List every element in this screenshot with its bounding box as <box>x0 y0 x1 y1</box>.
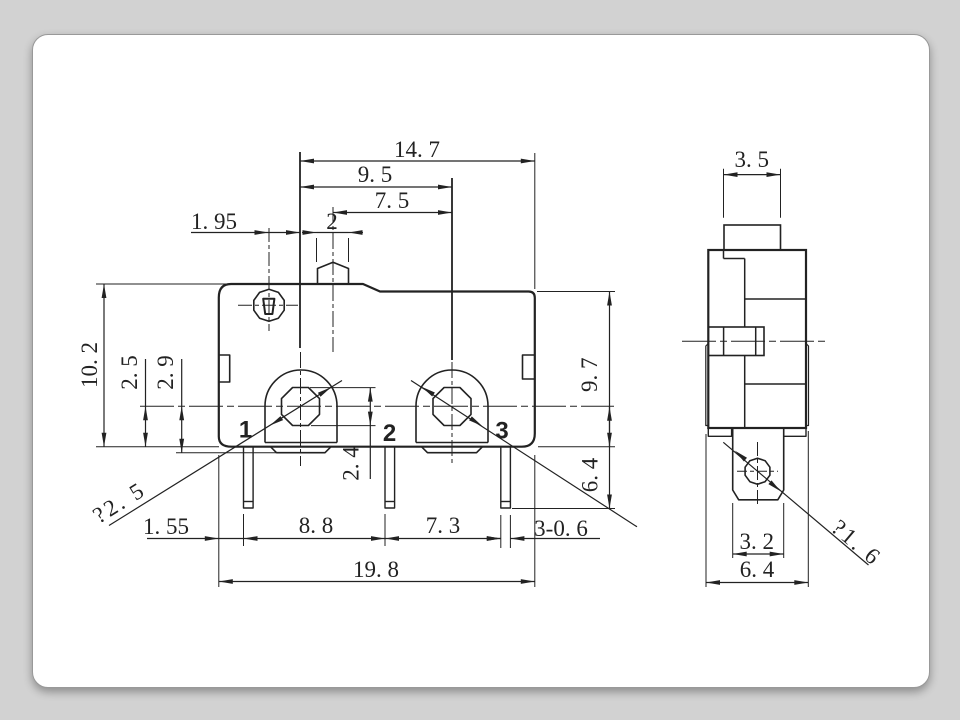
dim 6.4 front <box>609 407 611 509</box>
dim 3.5 <box>724 174 781 176</box>
dim 9.5 extension right (dome2 CL) <box>451 178 453 360</box>
mounting hole crosshair horizontal <box>238 304 298 306</box>
svg-text:6. 4: 6. 4 <box>578 457 603 492</box>
dim 6.4 side ext lines <box>705 434 707 587</box>
dome 2 vertical centerline <box>451 362 453 466</box>
dim 1.55 <box>147 538 219 540</box>
svg-text:3: 3 <box>495 418 508 445</box>
dim 6.4 side <box>706 582 808 584</box>
dim 2.9 <box>181 359 183 453</box>
leader dia 1.6 arrows <box>735 451 747 462</box>
right side notch <box>523 355 535 379</box>
dim 3-0.6 <box>486 538 501 540</box>
dim 3.2 <box>733 553 784 555</box>
dim 2 ext lines <box>316 238 318 262</box>
svg-text:3-0. 6: 3-0. 6 <box>534 516 588 541</box>
plunger button front view <box>318 262 349 284</box>
side view plunger button <box>724 225 781 250</box>
terminal dome 2 hex hole <box>433 388 471 426</box>
side view terminal tab <box>733 428 784 500</box>
dim 19.8 <box>219 581 535 583</box>
svg-text:1. 95: 1. 95 <box>191 209 237 234</box>
side view left foot <box>708 428 731 436</box>
terminal dome 2 arch <box>416 370 488 443</box>
terminal dome 1 seat <box>271 447 332 453</box>
side view horizontal centerline <box>682 340 826 342</box>
side view tab vertical centerline <box>757 442 759 507</box>
svg-text:14. 7: 14. 7 <box>394 137 440 162</box>
side view inner edge a <box>723 250 725 259</box>
side view protrusion block <box>708 327 764 356</box>
svg-text:9. 5: 9. 5 <box>358 162 393 187</box>
leader dia 1.6 line <box>723 442 868 565</box>
mounting hole crosshair vertical <box>268 228 270 331</box>
dim 2.5 <box>145 359 147 447</box>
dim 7.3 ext left <box>384 514 386 546</box>
dim 9.7 <box>609 292 611 447</box>
dim 8.8 ext left <box>243 514 245 546</box>
terminal dome 1 arch <box>265 370 337 443</box>
side view body outline <box>708 250 806 428</box>
dim 7.5 <box>333 212 452 214</box>
svg-text:2. 4: 2. 4 <box>338 446 363 481</box>
side view right cover sliver <box>806 344 809 426</box>
leader dia 2.5 arrows <box>270 416 283 425</box>
dim 3.2 ext lines <box>732 503 734 558</box>
front view switch body outline <box>219 284 535 447</box>
side view terminal hole <box>745 458 770 484</box>
svg-text:3. 5: 3. 5 <box>734 147 769 172</box>
svg-text:2: 2 <box>326 209 338 234</box>
side view tab horizontal centerline <box>737 470 778 472</box>
dim 14.7 <box>300 160 535 162</box>
side view inner edge c <box>744 356 746 429</box>
svg-text:7. 3: 7. 3 <box>426 513 461 538</box>
mounting hole slot <box>263 299 274 314</box>
svg-text:1. 55: 1. 55 <box>143 514 189 539</box>
svg-text:19. 8: 19. 8 <box>353 557 399 582</box>
dim 9.5 <box>300 186 452 188</box>
dome 1 vertical centerline <box>300 352 302 466</box>
svg-text:2. 9: 2. 9 <box>153 355 178 390</box>
dim 9.7 ext bottom <box>538 446 615 448</box>
pin 2 lead <box>385 448 395 509</box>
dim 9.7 ext top <box>537 291 615 293</box>
dim 14.7 extension right <box>534 153 536 289</box>
dim 19.8 ext right <box>534 455 536 587</box>
dim 10.2 ext top <box>96 283 231 285</box>
pin 1 lead <box>244 448 254 509</box>
dim 6.4 front ext bottom <box>512 508 615 510</box>
dim 14.7 extension left (dome1 CL) <box>299 152 301 348</box>
dim 3.5 ext lines <box>723 169 725 218</box>
button centerline <box>332 207 334 352</box>
svg-text:1: 1 <box>239 417 252 444</box>
dim 2.4 ext lines <box>310 387 376 389</box>
svg-text:6. 4: 6. 4 <box>740 557 775 582</box>
svg-text:10. 2: 10. 2 <box>77 342 102 388</box>
dim 10.2 ext bottom <box>96 446 219 448</box>
dim 1.55 ext left <box>218 455 220 587</box>
dim 2 <box>302 232 317 234</box>
side view left cover sliver <box>706 344 709 426</box>
leader dome 2 line <box>411 381 637 527</box>
dim 7.3 <box>385 538 501 540</box>
svg-text:3. 2: 3. 2 <box>739 529 774 554</box>
dim 2.4 <box>369 388 371 479</box>
mounting hole circle <box>254 289 284 321</box>
dim 2.9 ext bottom <box>176 452 276 454</box>
pin 3 lead <box>501 448 511 509</box>
side view right foot <box>784 428 806 436</box>
svg-text:7. 5: 7. 5 <box>375 188 410 213</box>
svg-text:9. 7: 9. 7 <box>577 357 602 392</box>
horizontal centerline through domes <box>140 405 614 407</box>
svg-text:2: 2 <box>383 420 396 447</box>
leader dia 2.5 line <box>109 381 342 526</box>
leader dome 2 arrows <box>422 387 435 397</box>
side view inner edge b <box>744 259 746 328</box>
dim 10.2 <box>103 284 105 447</box>
dim 8.8 <box>219 538 385 540</box>
dim 1.95 <box>191 232 300 234</box>
svg-text:8. 8: 8. 8 <box>299 513 334 538</box>
terminal dome 1 hex hole <box>282 388 320 426</box>
svg-text:?1. 6: ?1. 6 <box>827 515 887 571</box>
side view inner horizontal upper <box>745 298 806 300</box>
terminal dome 2 seat <box>422 447 483 453</box>
svg-text:?2. 5: ?2. 5 <box>88 477 150 528</box>
svg-text:2. 5: 2. 5 <box>117 355 142 390</box>
side view inner horizontal lower <box>745 383 806 385</box>
dim 3-0.6 ext lines <box>500 515 502 548</box>
left side notch <box>219 355 230 382</box>
